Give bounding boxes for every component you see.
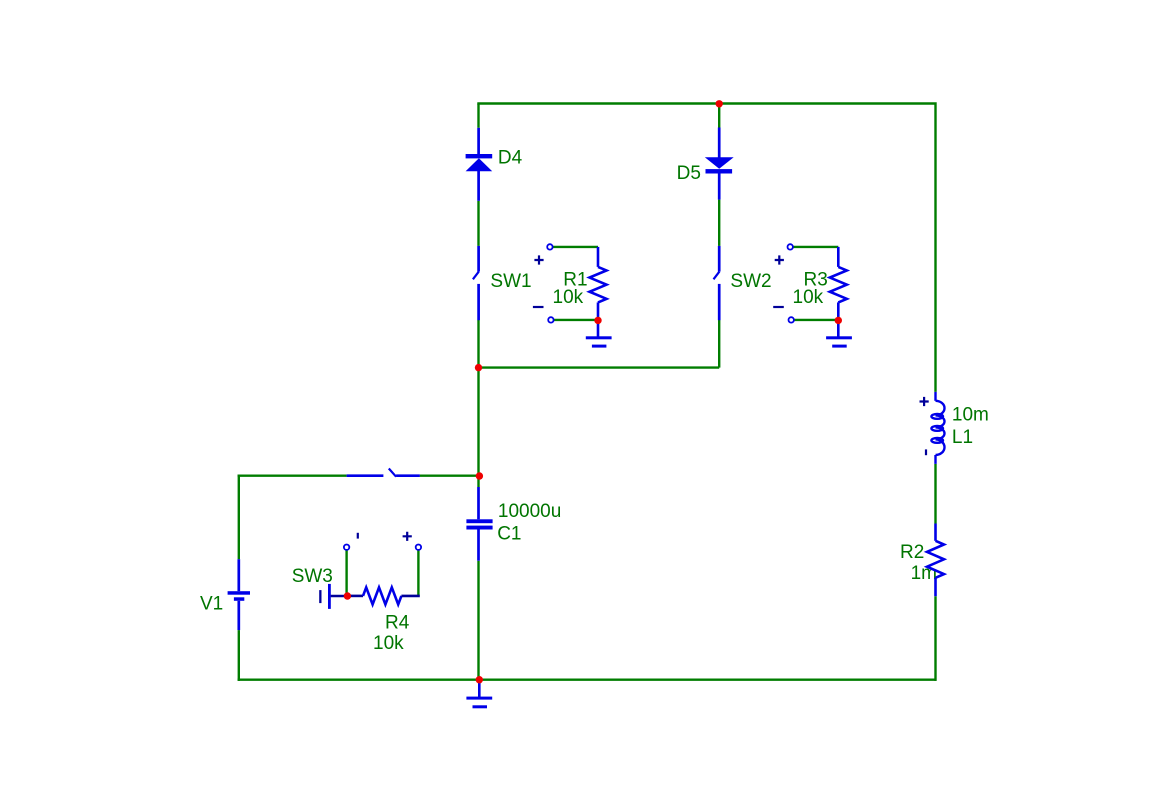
wire R3 bottom terminal	[793, 319, 838, 321]
terminal circle SW3 plus	[416, 545, 421, 550]
svg-text:D4: D4	[498, 148, 523, 169]
minus mark R1	[533, 306, 544, 308]
wire C1 bottom to ground rail	[477, 561, 479, 680]
battery V1	[228, 559, 250, 630]
wire bottom rail	[238, 679, 937, 681]
terminal circle R3 minus	[789, 317, 794, 322]
wire right rail lower	[934, 596, 936, 681]
wire top rail and right rail upper	[479, 104, 936, 392]
capacitor C1	[466, 487, 492, 561]
wire R3 top terminal	[792, 246, 838, 248]
terminal circle R1 minus	[548, 317, 553, 322]
wire SW2 bottom to node A	[718, 320, 720, 368]
resistor R2	[927, 524, 944, 597]
plus mark L1	[920, 397, 929, 406]
wire D5 to SW2	[718, 200, 720, 246]
svg-text:SW2: SW2	[730, 271, 771, 292]
wire right rail between L1 and R2	[934, 464, 936, 524]
svg-text:V1: V1	[200, 594, 223, 615]
junction node top D5	[716, 100, 723, 107]
switch SW3	[319, 584, 347, 609]
resistor R4	[347, 587, 419, 604]
ground at bottom rail	[466, 680, 492, 709]
svg-text:SW3: SW3	[292, 566, 333, 587]
svg-text:10m: 10m	[952, 405, 989, 426]
resistor R3	[830, 247, 847, 321]
plus mark SW3	[403, 532, 412, 541]
svg-text:1m: 1m	[911, 563, 937, 584]
junction node C1 top	[476, 472, 483, 479]
svg-text:10000u: 10000u	[498, 501, 561, 522]
svg-text:C1: C1	[497, 524, 521, 545]
terminal circle R1 plus	[547, 244, 552, 249]
minus mark L1	[925, 449, 927, 455]
diode D4	[466, 128, 493, 201]
plus mark R1	[534, 255, 543, 264]
wire D4 top stub	[477, 104, 479, 128]
switch SW1	[473, 246, 479, 320]
wire SW1 bottom to C1 junction	[477, 320, 479, 487]
wire left rail lower	[238, 630, 240, 681]
wire R1 top terminal	[552, 246, 598, 248]
main switch (unlabeled)	[347, 469, 420, 477]
wire SW3 left terminal	[345, 550, 347, 596]
wire horizontal left of main switch	[238, 475, 347, 477]
junction node R1 ground	[594, 317, 601, 324]
terminal circle SW3 minus	[344, 545, 349, 550]
svg-text:10k: 10k	[553, 287, 584, 308]
junction node bottom ground	[476, 676, 483, 683]
junction node A mid	[475, 364, 482, 371]
svg-text:R4: R4	[385, 613, 410, 634]
minus mark SW3	[357, 533, 359, 539]
svg-text:R2: R2	[900, 542, 924, 563]
diode D5	[705, 128, 734, 200]
wire left rail upper	[238, 475, 240, 560]
wire D5 top stub	[718, 104, 720, 128]
inductor L1	[931, 392, 944, 464]
minus mark R3	[773, 306, 784, 308]
svg-text:10k: 10k	[373, 633, 404, 654]
svg-text:D5: D5	[677, 163, 701, 184]
svg-text:SW1: SW1	[490, 271, 531, 292]
terminal circle R3 plus	[788, 244, 793, 249]
ground at R1	[586, 320, 612, 347]
resistor R1	[590, 247, 607, 321]
junction node R3 ground	[835, 317, 842, 324]
wire R1 bottom terminal	[553, 319, 598, 321]
junction node R4 left	[344, 592, 351, 599]
wire D4 to SW1	[477, 201, 479, 246]
wire horizontal right of main switch	[420, 475, 479, 477]
svg-text:L1: L1	[952, 427, 973, 448]
wire SW3 right terminal	[417, 550, 419, 596]
svg-text:10k: 10k	[793, 287, 824, 308]
wire mid horizontal node A	[479, 366, 720, 368]
switch SW2	[714, 246, 720, 320]
plus mark R3	[775, 255, 784, 264]
ground at R3	[826, 320, 852, 347]
